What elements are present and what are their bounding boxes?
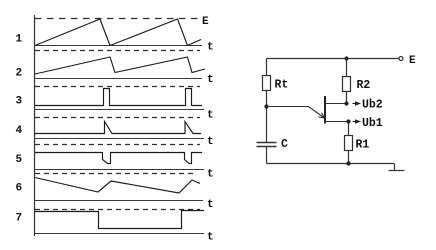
emitter arrowhead xyxy=(319,113,325,118)
label 6 xyxy=(16,183,23,195)
waveform 1 (capacitor sawtooth) xyxy=(35,19,201,46)
wire: capacitor bottom lead xyxy=(266,147,268,164)
dashed level line trace 2 xyxy=(35,50,200,52)
t axis trace 4 xyxy=(34,138,204,140)
svg-text:t: t xyxy=(207,232,214,244)
svg-text:R2: R2 xyxy=(357,79,371,92)
label 5 xyxy=(16,154,23,166)
waveform 5 (notches) xyxy=(35,153,202,164)
svg-text:2: 2 xyxy=(16,68,23,80)
svg-text:Ub2: Ub2 xyxy=(362,99,383,112)
wire: base-1 lead xyxy=(325,121,349,123)
terminal E (open circle) xyxy=(399,57,403,61)
label Ub2 xyxy=(362,99,383,112)
label E (waveform) xyxy=(202,16,209,28)
label t2 xyxy=(207,74,214,86)
wire: left branch Rt to capacitor xyxy=(266,91,268,143)
node: Rt/C/emitter junction xyxy=(264,104,268,108)
dashed E level line trace 1 xyxy=(35,18,200,20)
wire: base-2 lead xyxy=(325,103,347,105)
resistor R2 xyxy=(343,77,351,92)
svg-text:1: 1 xyxy=(16,33,23,45)
wire: emitter lead xyxy=(267,107,325,119)
svg-text:4: 4 xyxy=(16,125,23,137)
label t3 xyxy=(207,109,214,121)
svg-text:t: t xyxy=(207,168,214,180)
label C xyxy=(281,138,288,151)
t axis trace 5 xyxy=(34,169,204,171)
transistor UJT base bar xyxy=(324,96,326,124)
wire: bottom rail xyxy=(267,163,395,165)
svg-text:R1: R1 xyxy=(356,139,370,152)
capacitor C plates xyxy=(257,143,277,147)
node: top rail / R2 xyxy=(344,56,348,60)
label R1 xyxy=(356,139,370,152)
annotation arrow Ub2 xyxy=(353,102,360,105)
wire: R2 top lead xyxy=(346,59,348,77)
dashed level line trace 4 xyxy=(35,117,200,119)
svg-text:5: 5 xyxy=(16,154,23,166)
node: B2 / R2 junction xyxy=(344,101,348,105)
dashed level line trace 7 xyxy=(35,209,200,211)
wire: top supply rail xyxy=(267,58,400,60)
svg-text:C: C xyxy=(281,138,288,151)
t axis trace 7 xyxy=(34,233,204,235)
label t6 xyxy=(207,199,214,211)
svg-text:t: t xyxy=(207,136,214,148)
svg-text:Rt: Rt xyxy=(275,79,289,92)
waveform 6 (inverse sawtooth) xyxy=(35,178,200,194)
label 7 xyxy=(16,212,23,224)
svg-text:E: E xyxy=(202,16,209,28)
label 4 xyxy=(16,125,23,137)
wire: R1 top lead xyxy=(348,122,350,136)
svg-text:6: 6 xyxy=(16,183,23,195)
ground xyxy=(389,164,405,171)
t axis trace 2 xyxy=(34,78,202,80)
label t5 xyxy=(207,168,214,180)
waveform 2 xyxy=(35,57,205,74)
svg-text:t: t xyxy=(207,42,214,54)
label Rt xyxy=(275,79,289,92)
label t4 xyxy=(207,136,214,148)
label 3 xyxy=(16,95,23,107)
wire: R2 bottom lead xyxy=(346,92,348,104)
dashed level line trace 5 xyxy=(35,144,200,146)
annotation arrow Ub1 xyxy=(353,120,360,123)
label t1 xyxy=(207,42,214,54)
label 2 xyxy=(16,68,23,80)
label R2 xyxy=(357,79,371,92)
svg-text:3: 3 xyxy=(16,95,23,107)
resistor Rt xyxy=(263,76,271,91)
dashed level line trace 6 xyxy=(35,173,196,175)
svg-text:7: 7 xyxy=(16,212,23,224)
waveform 3 (pulses) xyxy=(35,89,202,106)
node: R1 / bottom rail junction xyxy=(346,161,350,165)
waveform 7 (square wave) xyxy=(35,211,204,229)
svg-text:t: t xyxy=(207,74,214,86)
node: B1 / R1 junction xyxy=(346,119,350,123)
waveform 4 (spikes) xyxy=(35,122,201,134)
svg-text:E: E xyxy=(409,55,416,67)
label Ub1 xyxy=(362,117,383,130)
t axis trace 3 xyxy=(34,109,204,111)
wire: left branch upper xyxy=(266,59,268,76)
dashed level line trace 3 xyxy=(35,86,200,88)
svg-text:t: t xyxy=(207,109,214,121)
svg-text:t: t xyxy=(207,199,214,211)
t axis trace 1 xyxy=(34,45,202,47)
resistor R1 xyxy=(345,136,353,151)
label E (circuit) xyxy=(409,55,416,67)
t axis trace 6 xyxy=(34,200,203,202)
label t7 xyxy=(207,232,214,244)
wire: R1 bottom lead xyxy=(348,151,350,164)
vertical axis (common ordinate line) xyxy=(34,15,36,236)
svg-text:Ub1: Ub1 xyxy=(362,117,383,130)
label 1 xyxy=(16,33,23,45)
